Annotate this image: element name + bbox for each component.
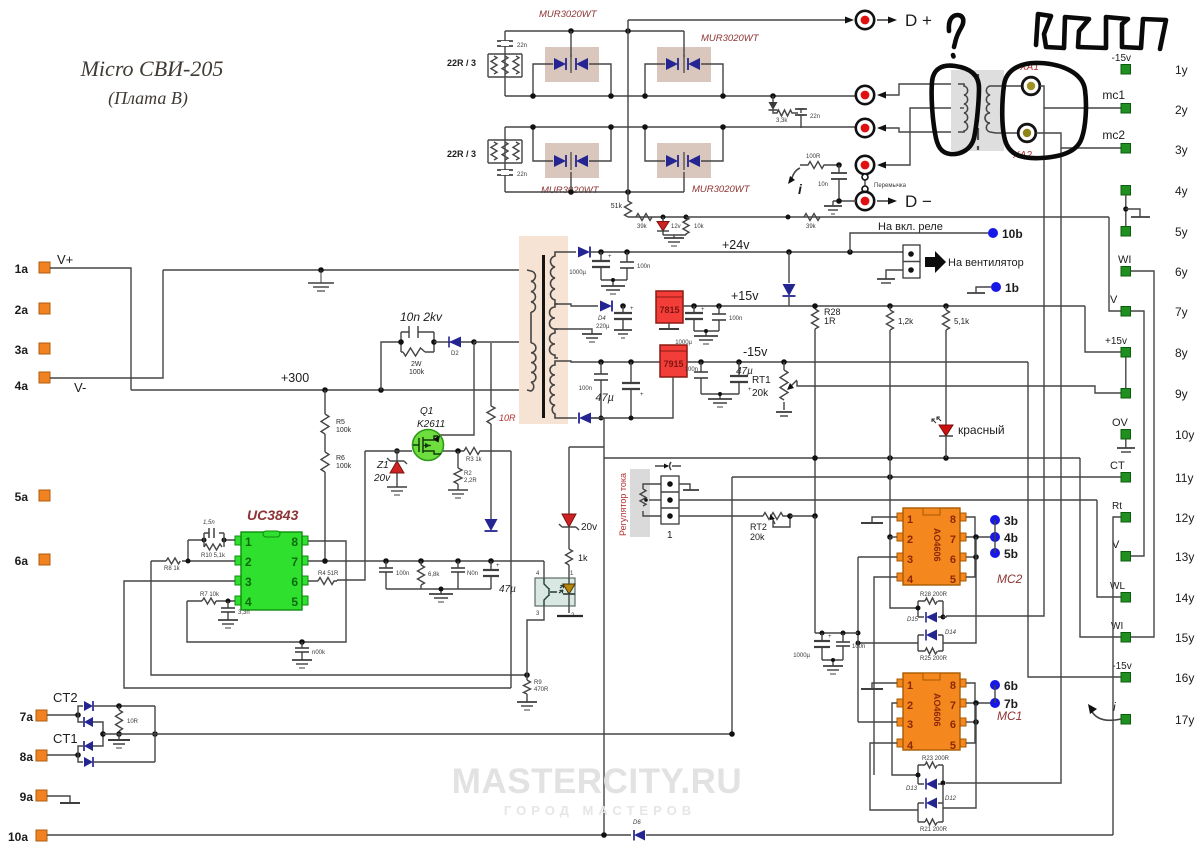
resistor R9 470R [517,672,549,710]
svg-text:MC2: MC2 [997,572,1023,586]
node 1b [967,281,1019,295]
svg-text:3,3n: 3,3n [238,610,250,616]
svg-text:8: 8 [291,535,298,549]
wire sense line y458 [569,447,1080,458]
connector 6a [15,554,50,568]
capacitor 1000µ on +15 [675,303,705,346]
svg-text:20k: 20k [750,532,765,542]
wire mc2 [1036,133,1121,148]
transformer XA primary tap [960,107,964,109]
wire relay lower pin to ground [877,270,903,283]
svg-text:470R: 470R [534,687,549,693]
svg-text:10n: 10n [818,182,828,188]
transformer XA primary winding [958,84,968,132]
transformer XA secondary winding [985,86,996,133]
svg-text:8y: 8y [1175,346,1188,360]
svg-text:20k: 20k [752,388,769,399]
svg-text:6,8k: 6,8k [428,572,440,578]
wire bus y217 [628,216,1109,218]
svg-text:22n: 22n [810,114,820,120]
svg-text:6a: 6a [15,554,29,568]
wire CT line to 11y [732,476,1121,478]
resistor R4 51R on pin6 [308,571,339,585]
connector 4a [15,372,87,395]
jumper Перемычка [862,174,907,192]
capacitor 1000µ gate supply [793,631,832,661]
svg-text:10n 2kv: 10n 2kv [400,310,443,324]
svg-text:1000µ: 1000µ [793,653,810,659]
connector 9a [20,790,47,804]
svg-text:1: 1 [907,680,913,692]
svg-text:R4 51R: R4 51R [318,571,339,577]
svg-text:MUR3020WT: MUR3020WT [692,184,751,195]
resistor R3 1k [464,448,511,464]
wire secondary tap -15 [558,361,661,362]
wire MC1 pin7 to 7b [966,702,991,704]
node dots sense line [887,455,949,461]
resistor 5,1k [943,303,971,425]
terminal phase2 [856,119,958,137]
svg-text:7915: 7915 [663,359,683,369]
capacitor 100n gate supply [836,631,865,661]
wire MC1 pin2 to D13 loop [892,703,918,775]
svg-text:1000µ: 1000µ [569,270,586,276]
connector 5a [15,490,50,504]
diode D4 [596,301,612,331]
svg-text:Z1: Z1 [376,460,389,471]
svg-text:D12: D12 [945,796,957,802]
ground -15 filter [701,392,739,407]
potentiometer RT2 20k [750,513,790,543]
svg-text:6: 6 [950,719,956,731]
svg-text:V: V [1110,294,1118,306]
wire bottom bus row2 [505,190,684,192]
wire MC1 pin6 stub [966,721,976,723]
svg-text:9y: 9y [1175,387,1188,401]
capacitor 3,3n on pin4 [218,601,250,628]
svg-text:22R / 3: 22R / 3 [447,58,476,68]
module MUR3020WT row1 left [533,9,611,96]
svg-text:D +: D + [905,11,932,30]
svg-text:4: 4 [245,595,252,609]
svg-text:4a: 4a [15,379,29,393]
IC UC3843 [235,507,308,610]
svg-text:8: 8 [950,680,956,692]
hand-drawn circle right [1002,63,1086,158]
rectifier CT2 input wire [47,714,78,716]
svg-text:1y: 1y [1175,63,1188,77]
svg-text:7: 7 [950,534,956,546]
connector 14y [1110,581,1194,605]
svg-text:100k: 100k [336,427,352,434]
node dot D13 right [941,781,946,786]
wire 6y to 15y right link [1131,271,1155,637]
wire D13-D12 link [942,784,944,803]
diode +24 to +15 [783,249,796,306]
wire CT top rail [93,705,155,707]
svg-text:R28 200R: R28 200R [920,592,948,598]
fan arrow На вентилятор [925,251,1024,273]
capacitor 100n timing [292,639,326,668]
wire CT riser [731,477,733,735]
svg-text:n00k: n00k [312,650,326,656]
wire center vertical x628 [627,20,629,201]
svg-text:100n: 100n [637,264,650,270]
svg-text:11y: 11y [1175,471,1193,485]
svg-text:1R: 1R [824,316,836,326]
wire left branch row1 [504,31,506,96]
svg-text:R5: R5 [336,419,345,426]
terminal phase1 [856,84,958,104]
wire 7915 input from raw line [591,377,673,418]
diode aux to vcc [485,519,498,531]
wire y217 down to 7y [1109,217,1121,311]
svg-text:10R: 10R [127,719,139,725]
node 5b [990,547,1018,561]
node dot MC2 pin6 [973,554,979,560]
wire top bus row1 [505,30,684,32]
module MUR3020WT row2 right [645,127,751,195]
node dot RT2 link [812,513,818,519]
connector 15y [1111,621,1194,645]
hand-drawn question mark [949,15,963,47]
node dot CT2 [75,712,81,718]
wire drain line to transformer [474,341,531,343]
wire 15y from sense line [1080,458,1121,637]
svg-text:2y: 2y [1175,103,1188,117]
connector 6y [1118,254,1188,279]
svg-text:5: 5 [291,595,298,609]
resistor 39k second [786,214,821,231]
resistor 1,2k [887,303,915,458]
secondary winding sections [550,252,558,304]
transformer core [542,255,545,418]
wire +15v rail to 8y [1085,306,1121,352]
wire bottom rail from 10a [47,834,1113,836]
capacitor 100n vcc b [451,561,478,589]
svg-text:CT2: CT2 [53,690,78,705]
svg-text:2W: 2W [411,361,422,368]
ground MC1 pin1 [861,683,897,689]
hand-drawn square wave [1036,14,1166,49]
svg-text:MASTERCITY.RU: MASTERCITY.RU [452,762,742,801]
svg-text:Регулятор тока: Регулятор тока [618,473,628,536]
svg-text:+: + [701,307,705,313]
wire MC2 pin7 to 4b [966,536,991,538]
wire MC2 pin2 gate [890,536,897,538]
svg-text:D13: D13 [906,786,918,792]
svg-text:5,1k: 5,1k [954,317,970,326]
node dot MC1 pin7 [973,700,979,706]
svg-text:D6: D6 [633,820,641,826]
svg-text:R25 200R: R25 200R [920,656,948,662]
svg-text:100k: 100k [336,463,352,470]
svg-text:2,2R: 2,2R [464,478,477,484]
wire pin7 vcc net [308,560,544,562]
capacitor 100n on +24 [620,249,650,280]
connector 4pin regulator [661,476,679,541]
svg-text:4y: 4y [1175,184,1188,198]
svg-text:100n: 100n [396,571,409,577]
ground regulator top pin [679,484,699,490]
wire V+ from 1a to +300 [50,268,131,390]
wire V- line y=270 to transformer primary top [163,269,527,271]
svg-text:3: 3 [907,554,913,566]
svg-text:D4: D4 [598,316,606,322]
node dot gate CT cross [887,534,893,540]
resistor R28 1R [812,303,841,461]
svg-text:5a: 5a [15,490,29,504]
connector 16y [1112,661,1194,685]
terminal D- [856,192,932,211]
svg-text:3: 3 [245,575,252,589]
svg-text:WI: WI [1118,254,1131,266]
ground D- line [824,198,842,214]
wire V- from 4a up to primary line [50,270,163,378]
arrow at 17y [1088,704,1121,720]
svg-text:R8 1k: R8 1k [164,566,181,572]
svg-text:красный: красный [958,423,1005,437]
svg-text:1,2k: 1,2k [898,317,914,326]
svg-text:47µ: 47µ [595,392,614,404]
svg-text:AO4606: AO4606 [932,528,942,562]
svg-text:R9: R9 [534,680,542,686]
primary winding link [530,312,532,343]
svg-text:12y: 12y [1175,511,1194,525]
svg-text:+15v: +15v [1105,336,1127,347]
svg-text:R21 200R: R21 200R [920,827,948,833]
svg-text:22R / 3: 22R / 3 [447,149,476,159]
ground at 10y [1117,439,1135,452]
svg-text:На вентилятор: На вентилятор [948,257,1024,269]
main transformer band [519,236,568,424]
svg-text:+: + [630,306,634,312]
svg-text:4b: 4b [1004,531,1018,545]
connector 5y [1121,225,1188,239]
node dot CT output riser [729,731,735,737]
connector 1y [1112,53,1188,77]
svg-text:7: 7 [950,700,956,712]
wire long vertical x604 [603,418,605,835]
wire mc1 [1040,86,1121,108]
svg-text:+: + [640,392,644,398]
wire phase bus row2 [505,126,856,128]
wire D15 node to mc1 bus [943,616,946,617]
snubber zener 3,3k 22n [769,96,821,128]
svg-text:1,5n: 1,5n [203,520,215,526]
svg-text:2a: 2a [15,303,29,317]
wire MC2 pin3 [858,556,897,558]
svg-text:17y: 17y [1175,713,1194,727]
svg-text:UC3843: UC3843 [247,507,299,523]
wire 1,2k down to MC2 gate [889,458,891,537]
svg-text:100n: 100n [729,316,742,322]
node 10b [988,227,1023,241]
svg-text:47µ: 47µ [499,584,516,595]
svg-text:12v: 12v [671,224,681,230]
svg-text:R23 200R: R23 200R [922,756,950,762]
node dots row2 phase bus [530,124,726,130]
svg-text:AO4606: AO4606 [932,693,942,727]
relay connector box [847,245,920,278]
terminal D+ [856,11,874,29]
diode D6 [633,820,645,841]
wire MC2 pin8-pin5 link [966,517,975,577]
resistor network 22R/3 row1 [447,54,522,77]
svg-text:R6: R6 [336,455,345,462]
capacitor 47µ left of 7915 [595,359,644,420]
node dot row1 bus module1 [568,28,574,34]
resistor R5 100k [321,390,352,450]
svg-text:5y: 5y [1175,225,1188,239]
svg-text:D −: D − [905,192,932,211]
svg-text:На вкл. реле: На вкл. реле [878,221,943,233]
svg-text:6y: 6y [1175,265,1188,279]
regulator тока gray strip [630,469,650,537]
svg-text:2: 2 [245,555,252,569]
wire MC1 pin8-pin5 link [966,683,975,743]
svg-text:8a: 8a [20,750,34,764]
svg-text:1a: 1a [15,262,29,276]
ground CT [108,734,130,748]
svg-text:+: + [608,254,612,260]
zener 12v [657,215,681,236]
node dot bottom rail x604 [601,832,607,838]
svg-text:CT: CT [1110,460,1125,472]
svg-text:10b: 10b [1002,227,1023,241]
svg-text:-15v: -15v [743,345,768,359]
diode CT1 down [78,755,155,767]
capacitor 220µ [614,303,634,338]
node 3b [990,514,1018,528]
ground at 9a [47,796,80,803]
svg-text:3b: 3b [1004,514,1018,528]
svg-text:OV: OV [1112,417,1129,429]
connector 11y [1110,460,1193,485]
connector 8a [20,731,78,764]
connector 13y [1112,539,1194,564]
wire secondary center tap ground [558,329,602,342]
svg-text:100n: 100n [852,644,865,650]
node 7b [990,697,1018,711]
svg-text:6b: 6b [1004,679,1018,693]
node dots row2 bottom bus [568,189,631,195]
diode CT2 up [78,701,93,715]
wire D+ line [628,19,845,21]
wire secondary bottom to -15 rectifier [558,417,577,419]
svg-text:MUR3020WT: MUR3020WT [701,33,760,44]
resistor R6 100k [321,450,352,561]
svg-text:13y: 13y [1175,550,1194,564]
diode rectifier +24v [578,247,590,258]
ground vcc filter [386,587,491,603]
svg-text:R7 10k: R7 10k [200,592,220,598]
diode D2 [434,337,474,358]
wire mc1 vertical bus [946,108,1044,616]
node 6b [990,679,1018,693]
svg-text:14y: 14y [1175,591,1194,605]
svg-text:9a: 9a [20,790,34,804]
terminal XA2 [996,124,1036,142]
resistor R8 1k on pin2 [151,558,235,572]
wire MC pin3 bus [857,557,859,722]
zener Z1 20v on gate line [373,448,407,495]
node dot pin3 bus cap rail [856,631,861,636]
svg-text:-15v: -15v [1112,661,1131,672]
wire sense riser to cap rail [814,516,816,633]
wire drain riser to Q1 [438,342,474,435]
node dot CT1 [75,752,81,758]
wire RT1 wiper to 9y [797,381,1121,393]
svg-text:6: 6 [291,575,298,589]
resistor 39k first [636,214,652,231]
node dot drain line [471,339,477,345]
svg-text:+24v: +24v [722,238,750,252]
svg-text:1: 1 [907,514,913,526]
snubber riser wire [381,342,401,390]
svg-text:mc2: mc2 [1102,128,1125,142]
capacitor 22n row2 [497,170,527,178]
node dot D15 right [941,615,946,620]
wire 4y-5y link with ground [1123,195,1150,226]
svg-text:5: 5 [950,574,956,586]
svg-text:D14: D14 [945,630,957,636]
ground gate supply [822,658,843,674]
terminal current sense [856,108,960,174]
wire pin2 feedback loop [151,561,527,675]
svg-text:22n: 22n [517,172,527,178]
svg-text:R2: R2 [464,471,472,477]
svg-text:-15v: -15v [1112,53,1131,64]
node dot RT2 out [787,513,793,519]
capacitor 22n row1 [497,41,527,49]
wire MC2 pin6 stub [966,556,976,558]
svg-text:51k: 51k [611,203,623,210]
wire 7y to 13y right link [1131,311,1145,556]
connector 3y [1102,128,1187,157]
gate loop R23 200R / D13 [906,756,950,792]
wire gate riser from R4 [337,451,365,580]
node 4b [990,531,1018,545]
gate loop R21 200R / D12 [918,796,957,833]
diode -15 rectifier [579,413,604,424]
svg-text:100R: 100R [806,154,821,160]
connector 2y [1102,88,1187,117]
wire 14y from regulator [1097,500,1121,597]
gate loop R28 200R / D15 [907,592,948,623]
svg-text:mc1: mc1 [1102,88,1125,102]
svg-text:RT2: RT2 [750,522,767,532]
svg-text:100k: 100k [409,369,425,376]
wire mc2 vertical bus [946,148,1061,783]
svg-text:10y: 10y [1175,428,1194,442]
capacitor 100n vcc a [379,561,409,589]
wire -15v rail to 16y [1028,362,1121,677]
resistor CT load [116,703,139,734]
node dot R5 junction [322,387,328,393]
ground +24 filter [601,278,627,294]
wire MC1 pin4 to D12 loop [870,743,918,810]
capacitor 47µ right of 7915 [730,359,753,394]
gate loop R25 200R / D14 [856,630,957,663]
wire gate line [365,450,412,452]
svg-text:7: 7 [291,555,298,569]
polarization mark [655,462,681,470]
svg-text:MC1: MC1 [997,709,1022,723]
capacitor 100n right of 7915 [685,359,708,394]
svg-text:3: 3 [907,719,913,731]
resistor 10k vertical [683,215,705,235]
